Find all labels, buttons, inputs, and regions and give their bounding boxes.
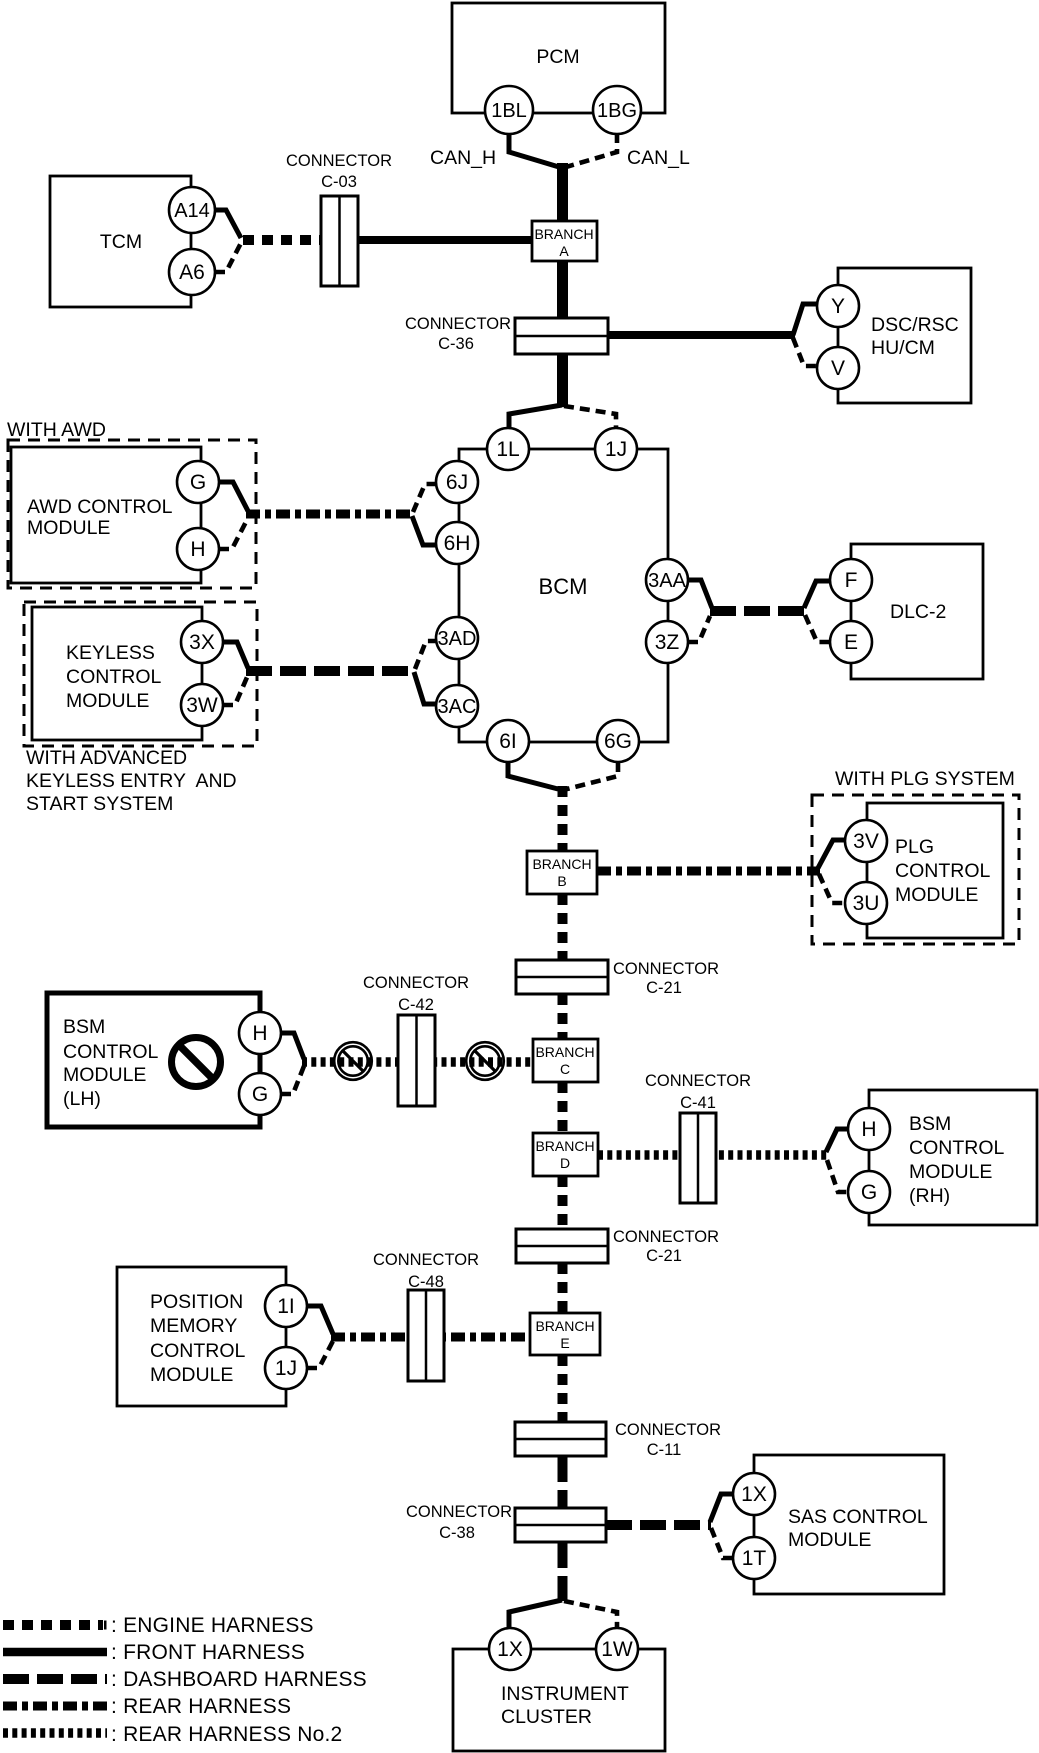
svg-text:CONNECTOR: CONNECTOR <box>406 1503 512 1521</box>
svg-text:MODULE: MODULE <box>66 690 149 712</box>
svg-text:6G: 6G <box>604 730 632 753</box>
svg-text:POSITION: POSITION <box>150 1291 243 1313</box>
svg-text:C-41: C-41 <box>680 1094 716 1112</box>
svg-text:CAN_L: CAN_L <box>627 147 690 169</box>
svg-text:C-36: C-36 <box>438 335 474 353</box>
svg-text:MODULE: MODULE <box>788 1529 871 1551</box>
svg-text:PLG: PLG <box>895 836 934 858</box>
svg-text:CONNECTOR: CONNECTOR <box>613 960 719 978</box>
svg-text:AWD CONTROL: AWD CONTROL <box>27 496 173 518</box>
svg-text:G: G <box>252 1083 268 1106</box>
svg-text:DSC/RSC: DSC/RSC <box>871 314 959 336</box>
svg-text:C-03: C-03 <box>321 173 357 191</box>
svg-text:CAN_H: CAN_H <box>430 147 496 169</box>
svg-text:6H: 6H <box>444 532 471 555</box>
svg-text:B: B <box>557 873 566 889</box>
svg-text:BSM: BSM <box>909 1113 951 1135</box>
svg-text:C-21: C-21 <box>646 979 682 997</box>
svg-text:START SYSTEM: START SYSTEM <box>26 793 173 815</box>
svg-text:BRANCH: BRANCH <box>532 856 591 872</box>
svg-text:3AD: 3AD <box>438 628 477 650</box>
svg-text:A: A <box>559 243 569 259</box>
svg-text:BRANCH: BRANCH <box>535 1044 594 1060</box>
svg-text:CONNECTOR: CONNECTOR <box>613 1228 719 1246</box>
svg-text:H: H <box>252 1022 267 1045</box>
svg-text:C-11: C-11 <box>647 1441 682 1459</box>
svg-text:PCM: PCM <box>536 46 579 68</box>
svg-text:1X: 1X <box>497 1638 523 1661</box>
svg-text:BRANCH: BRANCH <box>535 1138 594 1154</box>
svg-text:KEYLESS: KEYLESS <box>66 642 155 664</box>
svg-text:C-42: C-42 <box>398 996 434 1014</box>
svg-text:3AC: 3AC <box>438 696 477 718</box>
svg-text:: FRONT HARNESS: : FRONT HARNESS <box>111 1641 305 1664</box>
svg-text:1J: 1J <box>275 1357 297 1380</box>
svg-text:E: E <box>560 1335 569 1351</box>
svg-text:CONTROL: CONTROL <box>63 1041 158 1063</box>
svg-text:MODULE: MODULE <box>63 1064 146 1086</box>
svg-text:F: F <box>845 569 858 592</box>
svg-text:3X: 3X <box>189 631 215 654</box>
svg-text:MODULE: MODULE <box>909 1161 992 1183</box>
svg-text:3V: 3V <box>853 830 879 853</box>
svg-text:CONTROL: CONTROL <box>895 860 990 882</box>
svg-text:WITH ADVANCED: WITH ADVANCED <box>26 747 187 769</box>
svg-text:KEYLESS ENTRY AND: KEYLESS ENTRY AND <box>26 770 237 792</box>
svg-text:1BG: 1BG <box>597 100 637 122</box>
svg-text:(RH): (RH) <box>909 1185 950 1207</box>
svg-text:BRANCH: BRANCH <box>534 226 593 242</box>
svg-text:C-21: C-21 <box>646 1247 682 1265</box>
svg-text:E: E <box>844 631 858 654</box>
svg-text:CONNECTOR: CONNECTOR <box>286 152 392 170</box>
svg-text:MODULE: MODULE <box>150 1364 233 1386</box>
svg-text:H: H <box>861 1118 876 1141</box>
svg-text:CONNECTOR: CONNECTOR <box>405 315 511 333</box>
svg-text:1T: 1T <box>742 1547 767 1570</box>
svg-text:MEMORY: MEMORY <box>150 1315 237 1337</box>
svg-text:1J: 1J <box>605 438 627 461</box>
svg-text:A14: A14 <box>174 200 210 222</box>
svg-text:: DASHBOARD HARNESS: : DASHBOARD HARNESS <box>111 1668 367 1691</box>
svg-text:INSTRUMENT: INSTRUMENT <box>501 1683 629 1705</box>
svg-text:A6: A6 <box>179 261 205 284</box>
svg-text:1L: 1L <box>496 438 519 461</box>
svg-text:MODULE: MODULE <box>895 884 978 906</box>
svg-text:G: G <box>190 471 206 494</box>
svg-text:CONNECTOR: CONNECTOR <box>373 1251 479 1269</box>
svg-text:1W: 1W <box>601 1638 633 1661</box>
svg-text:: REAR HARNESS No.2: : REAR HARNESS No.2 <box>111 1723 342 1746</box>
svg-text:CLUSTER: CLUSTER <box>501 1706 592 1728</box>
svg-text:CONTROL: CONTROL <box>909 1137 1004 1159</box>
svg-text:G: G <box>861 1181 877 1204</box>
svg-text:1I: 1I <box>277 1295 295 1318</box>
svg-text:6J: 6J <box>446 471 468 494</box>
svg-text:: ENGINE HARNESS: : ENGINE HARNESS <box>111 1614 314 1637</box>
svg-text:1BL: 1BL <box>491 100 527 122</box>
svg-text:CONNECTOR: CONNECTOR <box>615 1421 721 1439</box>
svg-text:3W: 3W <box>186 694 218 717</box>
svg-text:HU/CM: HU/CM <box>871 337 935 359</box>
svg-text:: REAR HARNESS: : REAR HARNESS <box>111 1695 291 1718</box>
svg-text:C-38: C-38 <box>439 1524 475 1542</box>
svg-text:(LH): (LH) <box>63 1088 101 1110</box>
svg-text:TCM: TCM <box>100 231 142 253</box>
svg-text:BRANCH: BRANCH <box>535 1318 594 1334</box>
svg-text:CONNECTOR: CONNECTOR <box>645 1072 751 1090</box>
svg-text:D: D <box>560 1155 570 1171</box>
svg-text:WITH PLG SYSTEM: WITH PLG SYSTEM <box>835 768 1015 790</box>
svg-text:BCM: BCM <box>539 574 588 599</box>
svg-text:MODULE: MODULE <box>27 517 110 539</box>
svg-text:1X: 1X <box>741 1483 767 1506</box>
svg-text:3AA: 3AA <box>648 570 686 592</box>
svg-text:CONTROL: CONTROL <box>66 666 161 688</box>
svg-text:3Z: 3Z <box>655 631 680 654</box>
svg-text:BSM: BSM <box>63 1016 105 1038</box>
svg-text:WITH AWD: WITH AWD <box>7 419 106 441</box>
svg-text:V: V <box>831 357 845 380</box>
svg-text:CONNECTOR: CONNECTOR <box>363 974 469 992</box>
svg-text:C: C <box>560 1061 570 1077</box>
svg-text:CONTROL: CONTROL <box>150 1340 245 1362</box>
svg-text:3U: 3U <box>853 892 880 915</box>
svg-text:C-48: C-48 <box>408 1273 444 1291</box>
svg-text:6I: 6I <box>499 730 517 753</box>
svg-text:H: H <box>190 538 205 561</box>
svg-text:DLC-2: DLC-2 <box>890 601 946 623</box>
svg-text:Y: Y <box>831 295 845 318</box>
svg-text:SAS CONTROL: SAS CONTROL <box>788 1506 928 1528</box>
